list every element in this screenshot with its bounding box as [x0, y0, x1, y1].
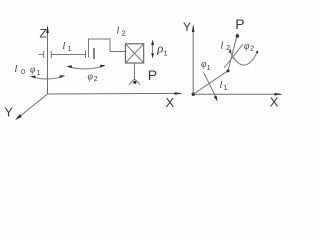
svg-text:1: 1: [207, 63, 211, 72]
svg-text:2: 2: [122, 29, 126, 38]
elbow joint dot: [226, 69, 229, 72]
svg-text:l: l: [63, 41, 66, 52]
link l1 (right): [193, 71, 228, 94]
svg-text:X: X: [270, 95, 279, 110]
phi1 rotation arrow (right): [204, 73, 218, 102]
svg-text:X: X: [166, 95, 175, 110]
svg-text:Y: Y: [183, 20, 191, 34]
svg-text:1: 1: [164, 49, 168, 58]
rotation arc phi1: [30, 75, 65, 79]
l1 end bar: [85, 51, 87, 59]
X axis (right): [193, 93, 282, 96]
svg-text:P: P: [148, 67, 157, 83]
Y axis (right): [192, 24, 195, 94]
origin joint dot: [192, 93, 195, 96]
rotation arc phi2: [66, 65, 105, 69]
svg-text:l: l: [220, 80, 223, 91]
Y axis: [15, 94, 47, 120]
svg-text:1: 1: [224, 83, 228, 92]
phi2 arc (right): [229, 49, 259, 65]
svg-text:2: 2: [94, 74, 98, 83]
svg-text:l: l: [117, 26, 120, 37]
P point dot: [236, 34, 239, 37]
gripper stem: [134, 63, 136, 80]
prismatic displacement arrow rho1: [151, 40, 154, 59]
svg-text:Y: Y: [4, 105, 13, 120]
svg-text:l: l: [221, 41, 224, 52]
prismatic joint box: [125, 44, 143, 63]
svg-text:l: l: [15, 64, 18, 75]
X axis: [48, 92, 183, 95]
svg-text:Z: Z: [40, 27, 47, 41]
link l2 bracket: [89, 39, 126, 58]
Z axis: [46, 25, 49, 94]
link l2 (right): [228, 34, 238, 71]
revolute joint 1 on Z axis: [39, 51, 52, 58]
svg-text:P: P: [235, 16, 244, 32]
svg-text:ρ: ρ: [156, 42, 163, 56]
revolute joint 2 axis bar: [93, 48, 95, 59]
svg-text:φ: φ: [30, 65, 36, 76]
svg-text:0: 0: [21, 67, 25, 76]
svg-text:1: 1: [37, 68, 41, 77]
l1 extension line: [224, 44, 243, 68]
gripper claw: [129, 79, 140, 85]
svg-text:1: 1: [68, 44, 72, 53]
svg-text:2: 2: [250, 44, 254, 53]
link l1: [51, 54, 85, 56]
